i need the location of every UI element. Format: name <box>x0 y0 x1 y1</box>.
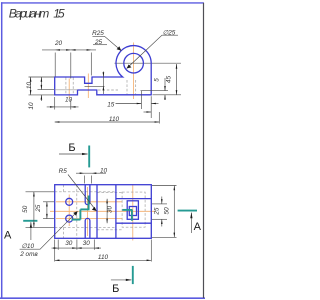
svg-text:Вариант: Вариант <box>9 7 50 21</box>
svg-text:2 отв: 2 отв <box>19 251 38 258</box>
svg-text:110: 110 <box>98 254 109 261</box>
svg-text:R25: R25 <box>92 30 104 37</box>
svg-text:∅25: ∅25 <box>163 29 176 36</box>
svg-text:45: 45 <box>166 76 173 84</box>
svg-text:50: 50 <box>164 207 171 215</box>
svg-text:10: 10 <box>26 82 33 90</box>
svg-text:10: 10 <box>100 168 108 175</box>
svg-text:15: 15 <box>53 7 65 21</box>
svg-text:20: 20 <box>54 40 63 47</box>
svg-text:15: 15 <box>107 101 115 108</box>
svg-text:25: 25 <box>154 207 161 216</box>
svg-text:Б: Б <box>112 283 119 295</box>
svg-text:30: 30 <box>65 240 73 247</box>
svg-text:Б: Б <box>68 142 75 154</box>
svg-text:10: 10 <box>28 102 35 110</box>
svg-text:30: 30 <box>83 240 91 247</box>
svg-text:R5: R5 <box>59 168 68 175</box>
svg-text:А: А <box>194 221 202 233</box>
svg-text:5: 5 <box>154 78 161 82</box>
svg-text:25: 25 <box>35 204 42 213</box>
svg-text:110: 110 <box>109 116 120 123</box>
svg-text:10: 10 <box>65 97 73 104</box>
svg-text:∅10: ∅10 <box>21 243 34 250</box>
svg-text:А: А <box>4 230 12 242</box>
svg-text:50: 50 <box>22 205 29 213</box>
svg-text:30: 30 <box>107 206 114 214</box>
svg-text:25: 25 <box>94 39 103 46</box>
